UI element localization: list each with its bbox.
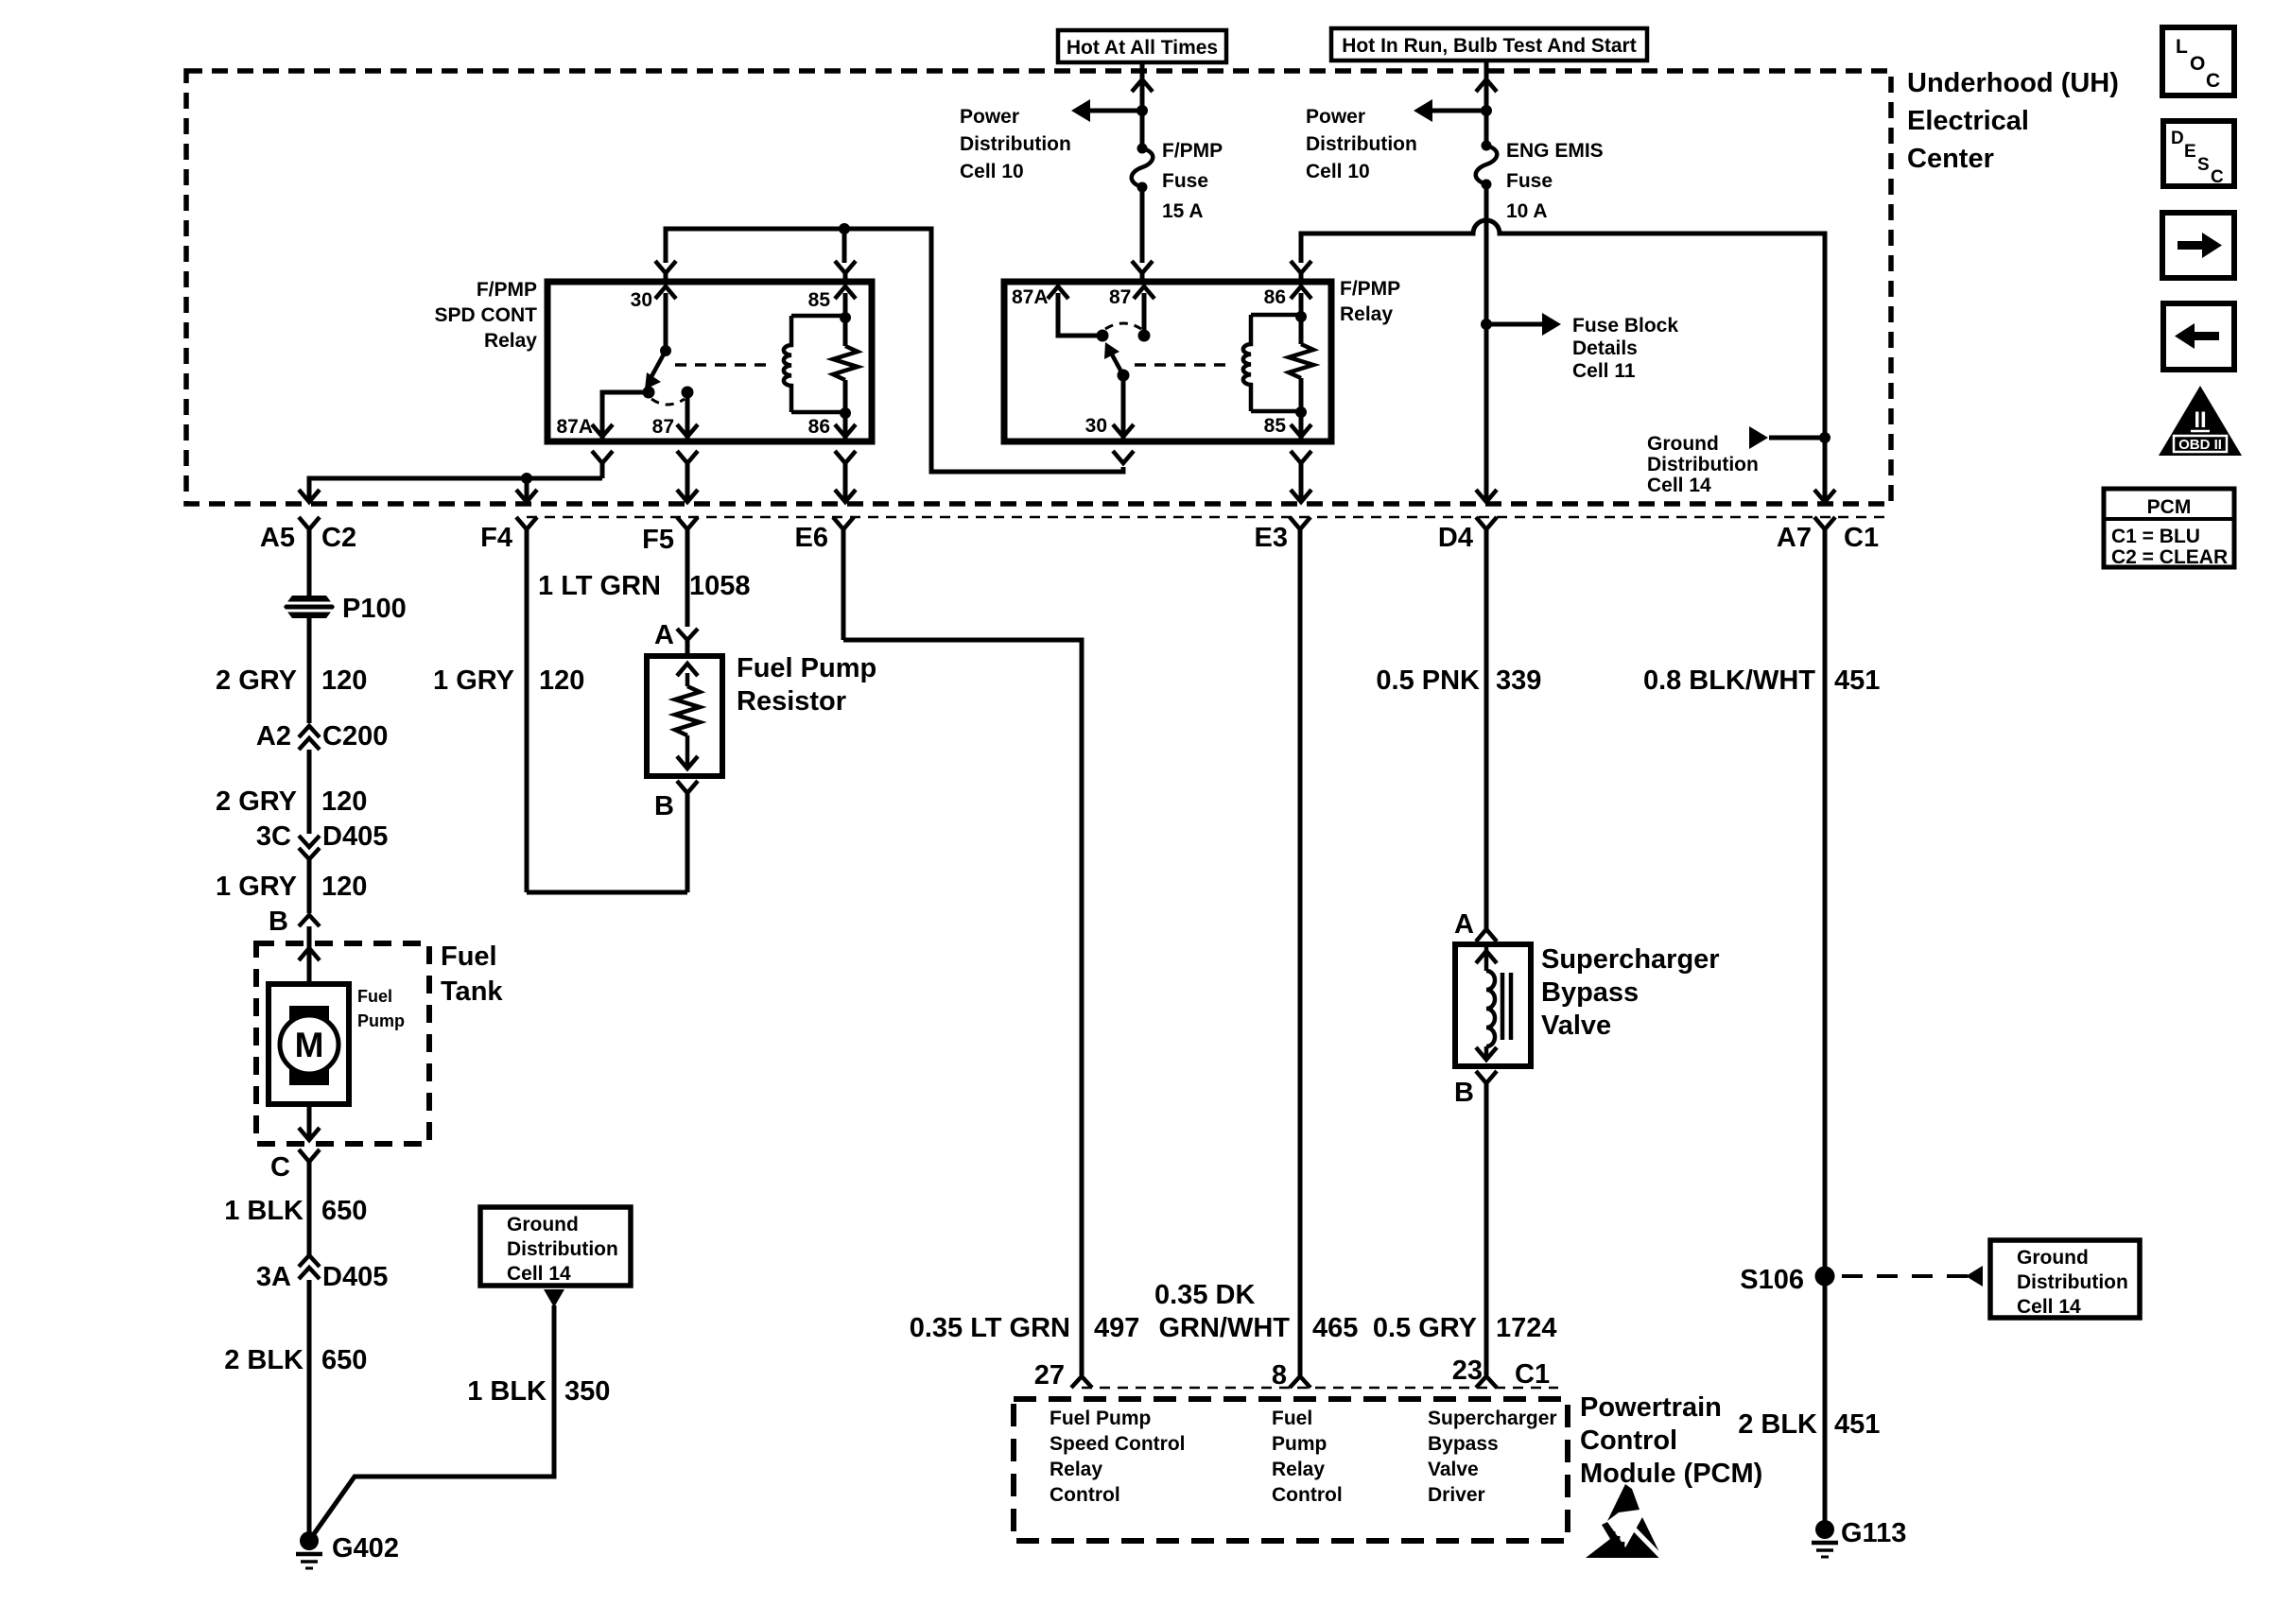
svg-text:M: M — [295, 1026, 324, 1064]
PCM connector pin 23 — [1452, 1356, 1497, 1388]
PCM function: Fuel Pump Relay Control — [1272, 1408, 1343, 1506]
svg-text:C2 = CLEAR: C2 = CLEAR — [2111, 546, 2228, 568]
wire: fuel pump to connector C — [299, 1104, 320, 1140]
supercharger bypass valve solenoid — [1476, 944, 1511, 1060]
fuse ENG EMIS 10 A — [1476, 141, 1498, 190]
wire label: 1 GRY 120 — [216, 872, 367, 902]
svg-text:G113: G113 — [1841, 1518, 1906, 1548]
PCM connector pin 27 — [1034, 1360, 1092, 1391]
label: Powertrain Control Module (PCM) — [1580, 1392, 1762, 1489]
reference box: Ground Distribution Cell 14 (left) — [480, 1207, 631, 1286]
svg-text:Cell 14: Cell 14 — [1647, 475, 1711, 496]
svg-text:0.8 BLK/WHT: 0.8 BLK/WHT — [1643, 665, 1815, 696]
svg-text:1 GRY: 1 GRY — [216, 872, 297, 902]
icon: LOC — [2162, 27, 2234, 95]
svg-text:II: II — [2194, 407, 2206, 433]
svg-text:Control: Control — [1050, 1484, 1120, 1506]
svg-text:C1: C1 — [1515, 1359, 1550, 1390]
svg-text:Supercharger: Supercharger — [1541, 944, 1720, 975]
svg-text:86: 86 — [808, 416, 830, 438]
svg-text:87: 87 — [1109, 286, 1131, 308]
svg-text:Ground: Ground — [507, 1214, 579, 1235]
wire: K1 pin30/85 supply rail to K2 pin 30 — [666, 223, 1123, 472]
svg-text:Bypass: Bypass — [1541, 977, 1639, 1008]
svg-text:Cell 10: Cell 10 — [1306, 161, 1370, 182]
svg-text:C: C — [2206, 70, 2220, 92]
svg-text:GRN/WHT: GRN/WHT — [1158, 1313, 1290, 1343]
svg-text:F/PMP: F/PMP — [1340, 278, 1400, 300]
label: F/PMP Fuse 15 A — [1162, 140, 1223, 222]
K2 pin 30 label — [1085, 415, 1107, 437]
K1 87A contact — [643, 387, 655, 399]
supercharger bypass valve box — [1455, 944, 1531, 1066]
fuse F/PMP 15 A — [1132, 144, 1154, 193]
svg-text:PCM: PCM — [2147, 496, 2192, 518]
K2 pin 86 label — [1264, 286, 1286, 308]
K1 wire contact to 87A pin — [592, 392, 649, 441]
relay K2: F/PMP Relay box — [1004, 282, 1331, 441]
wire label: 1 BLK 650 — [224, 1196, 367, 1226]
K1 dashed throw arc — [651, 399, 685, 405]
connector A at fuel pump resistor — [654, 620, 698, 656]
svg-text:650: 650 — [321, 1345, 367, 1375]
svg-text:87: 87 — [652, 416, 674, 438]
svg-text:10 A: 10 A — [1506, 200, 1548, 222]
svg-text:D4: D4 — [1438, 523, 1473, 553]
svg-text:L: L — [2176, 36, 2188, 58]
svg-text:Cell 10: Cell 10 — [960, 161, 1024, 182]
wire: K1 87A run to A5 and F4 — [299, 473, 602, 502]
K2 pin 85 label — [1264, 415, 1287, 437]
svg-text:2 BLK: 2 BLK — [1738, 1409, 1817, 1440]
svg-text:Cell 14: Cell 14 — [507, 1263, 571, 1285]
K1 pin 30 stub with arrow — [655, 286, 676, 349]
svg-text:A5: A5 — [260, 523, 295, 553]
K2 coil — [1243, 315, 1301, 411]
power source box: Hot In Run, Bulb Test And Start — [1331, 28, 1647, 60]
in-line connector 3C / D405 — [256, 821, 388, 913]
svg-text:85: 85 — [808, 289, 831, 311]
label: Fuel Pump Resistor — [737, 653, 876, 717]
connector half below K1 pin 87A — [592, 451, 613, 478]
K2 dashed throw arc — [1105, 323, 1141, 329]
svg-text:1058: 1058 — [689, 571, 751, 601]
K2 internal resistor — [1289, 344, 1313, 378]
svg-text:Valve: Valve — [1541, 1011, 1611, 1041]
svg-text:Fuse: Fuse — [1162, 170, 1208, 192]
label: Ground Distribution Cell 14 (UHEC) — [1647, 433, 1759, 496]
K1 87 contact stub — [677, 387, 698, 442]
fuel pump box — [269, 984, 349, 1104]
wire: E6 run to PCM pin 27 — [843, 640, 1082, 1375]
label: Power Distribution Cell 10 (ENG EMIS) — [1306, 106, 1417, 182]
wire: resistor B loop to F4 — [527, 890, 687, 895]
svg-text:Resistor: Resistor — [737, 686, 846, 717]
fuel pump motor M — [280, 1006, 338, 1085]
svg-text:2 GRY: 2 GRY — [216, 786, 297, 817]
svg-text:30: 30 — [631, 289, 652, 311]
svg-text:Power: Power — [960, 106, 1019, 128]
svg-text:Power: Power — [1306, 106, 1365, 128]
svg-text:1 GRY: 1 GRY — [433, 665, 514, 696]
connector A7/C1 — [1777, 517, 1879, 1529]
power source box: Hot At All Times — [1058, 30, 1226, 62]
K1 dashed actuation link — [675, 363, 773, 367]
wire label: 2 GRY 120 (middle) — [216, 786, 367, 817]
wire label: 1 BLK 350 — [467, 1376, 610, 1407]
svg-text:0.35 DK: 0.35 DK — [1154, 1280, 1255, 1310]
svg-text:350: 350 — [564, 1376, 610, 1407]
svg-text:Relay: Relay — [1050, 1459, 1102, 1480]
connector F4 — [480, 517, 537, 892]
label: ENG EMIS Fuse 10 A — [1506, 140, 1604, 222]
wire label: 0.5 GRY 1724 — [1373, 1313, 1557, 1343]
svg-text:0.5 PNK: 0.5 PNK — [1376, 665, 1480, 696]
svg-text:1724: 1724 — [1496, 1313, 1557, 1343]
wire: battery feed into F/PMP fuse — [1132, 62, 1153, 148]
wire: ENG EMIS fuse output down to D4 — [1476, 184, 1497, 502]
svg-text:A: A — [654, 620, 674, 650]
svg-text:Module (PCM): Module (PCM) — [1580, 1459, 1762, 1489]
svg-text:Hot At All Times: Hot At All Times — [1067, 37, 1218, 59]
K2 pin 87 label — [1109, 286, 1131, 308]
svg-text:Underhood (UH): Underhood (UH) — [1907, 68, 2119, 98]
svg-text:1 LT GRN: 1 LT GRN — [538, 571, 661, 601]
svg-text:8: 8 — [1272, 1360, 1287, 1391]
svg-text:E3: E3 — [1255, 523, 1288, 553]
K2 dashed actuation link — [1135, 363, 1233, 367]
wire label: 1 LT GRN 1058 — [538, 571, 750, 601]
reference box: Ground Distribution Cell 14 (right) — [1990, 1240, 2140, 1318]
svg-text:D405: D405 — [322, 821, 388, 852]
svg-text:OBD II: OBD II — [2178, 437, 2222, 453]
svg-text:C200: C200 — [322, 721, 388, 752]
svg-text:Distribution: Distribution — [1306, 133, 1417, 155]
connector half below K1 pin 87 — [677, 451, 698, 502]
junction: ENG EMIS feed node — [1481, 105, 1492, 116]
wire label: 0.5 PNK 339 — [1376, 665, 1541, 696]
wire label: 2 BLK 451 — [1738, 1409, 1880, 1440]
wire: 1 BLK 350 to G402 — [311, 1305, 554, 1538]
svg-text:ENG EMIS: ENG EMIS — [1506, 140, 1604, 162]
svg-text:Hot In Run, Bulb Test And Star: Hot In Run, Bulb Test And Start — [1342, 35, 1636, 57]
connector half above K1 pin 30 — [655, 261, 676, 282]
svg-text:Pump: Pump — [1272, 1433, 1327, 1455]
svg-text:Relay: Relay — [1340, 303, 1393, 325]
svg-text:85: 85 — [1264, 415, 1287, 437]
svg-text:Relay: Relay — [484, 330, 537, 352]
K2 pin 87A label — [1012, 286, 1049, 308]
svg-text:Distribution: Distribution — [2017, 1271, 2128, 1293]
K1 switch pivot — [660, 345, 671, 356]
svg-text:Distribution: Distribution — [1647, 454, 1759, 475]
connector half above K2 pin 86 — [1291, 261, 1311, 282]
svg-text:0.35 LT GRN: 0.35 LT GRN — [910, 1313, 1070, 1343]
svg-text:P100: P100 — [342, 594, 407, 624]
icon: DESC — [2163, 121, 2234, 187]
junction: F/PMP feed node — [1136, 105, 1148, 116]
K2 pin 87A stub with arrow — [1048, 286, 1102, 336]
svg-text:S: S — [2197, 155, 2210, 175]
label: Fuel Pump (inner) — [357, 987, 405, 1030]
svg-text:F4: F4 — [480, 523, 512, 553]
connector D4 — [1438, 517, 1497, 929]
connector A5/C2 — [260, 517, 356, 596]
svg-text:497: 497 — [1094, 1313, 1139, 1343]
tap arrow: Power Distribution Cell 10 (left) — [1071, 99, 1142, 122]
svg-text:339: 339 — [1496, 665, 1541, 696]
K1 switch arm — [645, 351, 666, 389]
ground G402 — [296, 1531, 399, 1568]
tap arrow: Fuse Block Details Cell 11 — [1486, 313, 1561, 336]
svg-text:Fuel: Fuel — [1272, 1408, 1312, 1429]
svg-text:30: 30 — [1085, 415, 1107, 437]
wire label: 0.35 LT GRN 497 — [910, 1313, 1140, 1343]
svg-text:Center: Center — [1907, 144, 1994, 174]
svg-text:F/PMP: F/PMP — [477, 279, 537, 301]
K2 87 contact stub — [1134, 286, 1154, 342]
Fuel Tank enclosure (dashed) — [256, 943, 429, 1144]
svg-text:Bypass: Bypass — [1428, 1433, 1499, 1455]
svg-text:120: 120 — [321, 786, 367, 817]
svg-text:1 BLK: 1 BLK — [467, 1376, 547, 1407]
PCM connector pin 8 — [1272, 1360, 1310, 1391]
K1 coil — [784, 316, 845, 412]
K1 pin 86 stub with arrow — [835, 380, 856, 441]
K1 pin 86 label — [808, 416, 830, 438]
connector F5 — [642, 517, 698, 627]
icon: arrow left — [2163, 303, 2234, 370]
svg-text:Supercharger: Supercharger — [1428, 1408, 1557, 1429]
svg-text:650: 650 — [321, 1196, 367, 1226]
K2 wire pivot to pin 30 — [1113, 375, 1134, 441]
grommet P100 — [284, 594, 407, 624]
svg-text:C2: C2 — [321, 523, 356, 553]
svg-text:120: 120 — [321, 665, 367, 696]
connector half below K2 pin 30 — [1113, 451, 1134, 463]
K2 87A contact — [1097, 330, 1109, 342]
svg-text:Electrical: Electrical — [1907, 106, 2029, 136]
fuel pump resistor element — [675, 664, 700, 769]
connector half above K1 pin 85 — [835, 261, 856, 282]
wire: ignition feed into ENG EMIS fuse — [1476, 60, 1497, 146]
svg-text:87A: 87A — [1012, 286, 1049, 308]
K1 pin 87 label — [652, 416, 674, 438]
PCM function: Fuel Pump Speed Control Relay Control — [1050, 1408, 1186, 1506]
tap arrow: Power Distribution Cell 10 (right) — [1414, 99, 1486, 122]
connector line C2 (thin dashed) — [527, 516, 1891, 519]
connector C — [270, 1149, 320, 1541]
tap arrow from ground distribution box — [544, 1289, 564, 1307]
connector E6 — [795, 517, 854, 640]
svg-text:Ground: Ground — [1647, 433, 1719, 455]
PCM connector line (thin dashed) — [1082, 1387, 1558, 1390]
svg-text:Fuel Pump: Fuel Pump — [737, 653, 876, 683]
svg-text:Details: Details — [1572, 337, 1638, 359]
svg-text:Cell 11: Cell 11 — [1572, 360, 1636, 382]
connector E3 — [1255, 517, 1310, 1375]
svg-text:Powertrain: Powertrain — [1580, 1392, 1722, 1423]
wire: F/PMP fuse output to relay pin 87 — [1140, 187, 1145, 263]
PCM connector C1 label — [1515, 1359, 1550, 1390]
svg-text:F5: F5 — [642, 525, 674, 555]
svg-text:451: 451 — [1834, 1409, 1880, 1440]
K1 pin 85 label — [808, 289, 831, 311]
svg-text:E6: E6 — [795, 523, 828, 553]
in-line connector A2 / C200 — [256, 721, 388, 834]
PCM enclosure (dashed) — [1014, 1399, 1568, 1541]
legend box: PCM connectors — [2104, 489, 2234, 568]
connector half below K2 pin 85 — [1291, 451, 1311, 502]
connector half at relay2 pin 87 — [1132, 261, 1153, 282]
K1 internal resistor — [833, 346, 858, 380]
svg-text:A2: A2 — [256, 721, 291, 752]
svg-text:C1: C1 — [1844, 523, 1879, 553]
svg-text:B: B — [654, 791, 674, 821]
connector B at fuel tank — [269, 907, 320, 984]
svg-text:2 BLK: 2 BLK — [224, 1345, 304, 1375]
svg-text:Control: Control — [1580, 1425, 1677, 1456]
connector A at supercharger bypass valve — [1454, 909, 1497, 942]
K1 pin 30 label — [631, 289, 652, 311]
svg-text:G402: G402 — [332, 1533, 399, 1564]
junction: ground distribution tap node — [1819, 432, 1831, 443]
label: F/PMP Relay — [1340, 278, 1400, 325]
svg-text:B: B — [269, 907, 288, 937]
svg-text:Valve: Valve — [1428, 1459, 1479, 1480]
label: Fuse Block Details Cell 11 — [1572, 315, 1678, 382]
ESD sensitivity symbol — [1586, 1484, 1663, 1559]
connector B at fuel pump resistor — [654, 781, 698, 892]
K1 pin 87A label — [556, 416, 593, 438]
icon: arrow right — [2162, 213, 2234, 278]
connector B at supercharger bypass valve — [1454, 1071, 1497, 1375]
svg-text:F/PMP: F/PMP — [1162, 140, 1223, 162]
label: Fuel Tank — [441, 942, 503, 1007]
svg-text:D: D — [2171, 129, 2184, 148]
svg-text:Fuse Block: Fuse Block — [1572, 315, 1678, 337]
K2 switch arm — [1104, 342, 1123, 375]
svg-text:1 BLK: 1 BLK — [224, 1196, 304, 1226]
svg-text:E: E — [2184, 142, 2196, 162]
svg-text:S106: S106 — [1740, 1265, 1804, 1295]
K2 pin 86 stub with arrow — [1291, 286, 1311, 344]
svg-text:120: 120 — [539, 665, 584, 696]
label: Supercharger Bypass Valve — [1541, 944, 1720, 1041]
svg-text:Ground: Ground — [2017, 1247, 2089, 1269]
arrow into fuel tank — [299, 948, 320, 960]
connector half below K1 pin 86 — [835, 451, 856, 502]
svg-text:Distribution: Distribution — [507, 1238, 618, 1260]
svg-text:3C: 3C — [256, 821, 291, 852]
svg-text:0.5 GRY: 0.5 GRY — [1373, 1313, 1477, 1343]
dashed reference link S106 to ground distribution box — [1842, 1266, 1983, 1287]
svg-text:86: 86 — [1264, 286, 1286, 308]
icon: OBD II triangle — [2159, 386, 2242, 456]
svg-text:Speed Control: Speed Control — [1050, 1433, 1186, 1455]
wire label: 0.35 DK GRN/WHT 465 — [1154, 1280, 1358, 1343]
svg-text:23: 23 — [1452, 1356, 1483, 1386]
junction S106 — [1740, 1265, 1834, 1295]
wire label: 2 BLK 650 — [224, 1345, 367, 1375]
svg-text:Fuse: Fuse — [1506, 170, 1553, 192]
wire: coil ground rail K2-86 to A7 with hop over D4 wire — [1301, 220, 1835, 502]
svg-text:Fuel: Fuel — [441, 942, 497, 972]
svg-text:465: 465 — [1312, 1313, 1358, 1343]
K2 switch pivot — [1118, 370, 1130, 382]
svg-text:451: 451 — [1834, 665, 1880, 696]
in-line connector 3A / D405 — [256, 1255, 388, 1292]
svg-text:SPD CONT: SPD CONT — [434, 304, 537, 326]
wire label: 0.8 BLK/WHT 451 — [1643, 665, 1880, 696]
svg-text:C: C — [2211, 167, 2224, 187]
svg-text:B: B — [1454, 1078, 1474, 1108]
PCM function: Supercharger Bypass Valve Driver — [1428, 1408, 1557, 1506]
tap arrow: Ground Distribution Cell 14 (UHEC) — [1749, 426, 1825, 449]
svg-text:27: 27 — [1034, 1360, 1065, 1391]
svg-text:C: C — [270, 1152, 290, 1183]
label: Underhood (UH) Electrical Center — [1907, 68, 2119, 174]
wire label: 2 GRY 120 (upper) — [216, 618, 367, 723]
svg-text:Tank: Tank — [441, 976, 503, 1007]
svg-text:A: A — [1454, 909, 1474, 940]
Underhood Electrical Center enclosure (dashed) — [186, 71, 1891, 504]
label: F/PMP SPD CONT Relay — [434, 279, 537, 352]
svg-text:O: O — [2190, 53, 2205, 75]
K2 pin 85 stub with arrow — [1291, 378, 1311, 441]
svg-text:Driver: Driver — [1428, 1484, 1485, 1506]
fuel pump resistor box — [647, 656, 722, 776]
svg-text:87A: 87A — [556, 416, 593, 438]
junction: fuse block tap node — [1481, 319, 1492, 330]
wire label: 1 GRY 120 (F4) — [433, 665, 584, 696]
ground G113 — [1812, 1518, 1906, 1557]
svg-text:D405: D405 — [322, 1262, 388, 1292]
svg-text:2 GRY: 2 GRY — [216, 665, 297, 696]
K1 pin 85 stub with arrow — [835, 286, 856, 346]
svg-text:Pump: Pump — [357, 1011, 405, 1030]
svg-text:3A: 3A — [256, 1262, 291, 1292]
svg-text:Fuel: Fuel — [357, 987, 392, 1006]
svg-text:120: 120 — [321, 872, 367, 902]
svg-text:Relay: Relay — [1272, 1459, 1325, 1480]
svg-text:15 A: 15 A — [1162, 200, 1204, 222]
svg-text:C1 = BLU: C1 = BLU — [2111, 526, 2200, 547]
svg-text:Fuel Pump: Fuel Pump — [1050, 1408, 1151, 1429]
label: Power Distribution Cell 10 (F/PMP) — [960, 106, 1071, 182]
svg-text:Cell 14: Cell 14 — [2017, 1296, 2081, 1318]
svg-text:Distribution: Distribution — [960, 133, 1071, 155]
svg-text:Control: Control — [1272, 1484, 1343, 1506]
relay K1: F/PMP SPD CONT Relay box — [547, 282, 872, 441]
svg-text:A7: A7 — [1777, 523, 1812, 553]
